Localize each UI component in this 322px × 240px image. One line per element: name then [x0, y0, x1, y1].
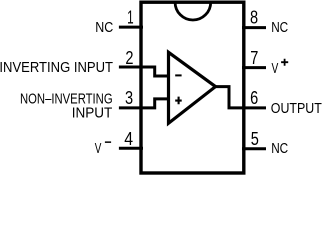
svg-text:NC: NC [271, 20, 288, 36]
svg-text:INVERTING INPUT: INVERTING INPUT [0, 60, 113, 76]
pin 4 superscript minus [105, 141, 111, 143]
svg-text:1: 1 [127, 7, 134, 28]
svg-text:8: 8 [250, 7, 258, 28]
pin 7 [242, 66, 266, 69]
wire pin 2 to inverting input [119, 67, 170, 76]
inverting input symbol (minus) [175, 74, 181, 76]
wire op-amp output to pin 6 [215, 87, 266, 108]
svg-text:5: 5 [251, 128, 259, 149]
svg-text:NC: NC [95, 20, 113, 36]
svg-text:7: 7 [250, 47, 258, 68]
pin 8 [242, 26, 266, 29]
IC body U1 (8-pin DIP outline) [141, 2, 244, 173]
svg-text:V: V [272, 61, 279, 77]
svg-text:V: V [95, 141, 102, 157]
svg-text:6: 6 [250, 87, 258, 108]
svg-text:NC: NC [271, 141, 288, 157]
pin 5 [242, 147, 266, 150]
svg-text:4: 4 [124, 128, 133, 149]
pin-1 orientation notch [175, 2, 211, 20]
svg-text:2: 2 [125, 47, 133, 68]
op-amp U1 triangle [169, 52, 216, 123]
svg-text:OUTPUT: OUTPUT [271, 101, 322, 117]
svg-text:3: 3 [125, 87, 133, 108]
pin 7 superscript plus [281, 59, 288, 66]
pin 1 [119, 26, 143, 29]
pin 4 [119, 147, 143, 150]
svg-text:INPUT: INPUT [72, 105, 113, 121]
wire pin 3 to non-inverting input [119, 99, 170, 108]
non-inverting input symbol (plus) [175, 97, 182, 105]
